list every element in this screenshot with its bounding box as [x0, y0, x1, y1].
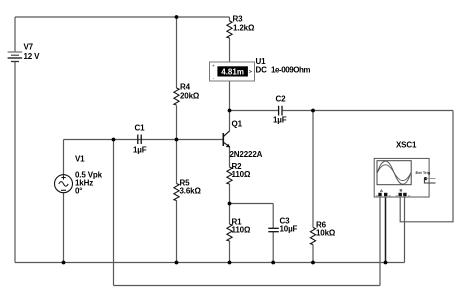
battery V7 [8, 52, 23, 62]
svg-text:Ext Trig: Ext Trig [416, 170, 431, 175]
capacitor C2 1uF [279, 106, 282, 116]
wire V1 bottom lead [63, 193, 65, 263]
svg-text:1µF: 1µF [273, 116, 287, 125]
transistor Q1 2N2222A [223, 131, 229, 147]
svg-text:1e-009Ohm: 1e-009Ohm [271, 66, 310, 75]
svg-text:0°: 0° [75, 187, 82, 196]
wire right drop to scope B+ [400, 111, 453, 222]
wire C3 top lead [272, 204, 274, 229]
ammeter U1 [210, 62, 255, 82]
node R4 top rail [175, 15, 179, 19]
wire ground bus [15, 262, 405, 264]
svg-text:12 V: 12 V [24, 52, 41, 61]
resistor R6 10k [310, 228, 315, 245]
node emitter R2 R1 [228, 202, 232, 206]
svg-text:V7: V7 [24, 43, 34, 52]
resistor R4 20k [174, 88, 179, 105]
node R1 ground [228, 261, 232, 265]
wire C2 to right corner [283, 110, 453, 112]
wire R6 top lead [312, 111, 314, 228]
wire V1 top lead [63, 140, 65, 175]
wire scope A- to ground [385, 197, 387, 262]
svg-text:DC: DC [256, 66, 268, 75]
svg-text:Q1: Q1 [232, 120, 243, 129]
wire top rail V7 to R3 [15, 16, 230, 18]
svg-text:110Ω: 110Ω [232, 226, 251, 235]
svg-text:XSC1: XSC1 [396, 141, 417, 150]
wire R4 top lead [176, 17, 178, 88]
wire R1 bottom lead [229, 241, 231, 263]
wire R5 bottom lead [176, 201, 178, 263]
wire base net V1 to Q1 [64, 139, 223, 141]
resistor R1 110 [227, 224, 232, 241]
node A- ground [384, 261, 388, 265]
svg-text:10µF: 10µF [280, 225, 298, 234]
svg-text:R4: R4 [180, 83, 191, 92]
wire R6 bottom lead [312, 245, 314, 263]
svg-text:2N2222A: 2N2222A [230, 150, 263, 159]
node R6 ground [311, 261, 315, 265]
svg-text:R3: R3 [233, 15, 244, 24]
wire collector lead [229, 111, 231, 131]
wire V7 top lead [14, 17, 16, 52]
AC source V1 [55, 175, 73, 193]
node C3 ground [271, 261, 275, 265]
resistor R5 3.6k [174, 184, 179, 201]
capacitor C1 1uF [138, 135, 141, 145]
node collector output [228, 109, 232, 113]
wire bottom input to scope A+ [114, 285, 381, 287]
wire C3 bottom lead [272, 232, 274, 263]
svg-text:A: A [380, 188, 383, 193]
capacitor C3 10uF [268, 228, 279, 231]
wire V7 bottom lead [14, 62, 16, 263]
svg-text:110Ω: 110Ω [232, 170, 251, 179]
svg-text:V1: V1 [75, 155, 85, 164]
oscilloscope XSC1 [374, 158, 435, 197]
resistor R2 110 [227, 167, 232, 184]
svg-text:10kΩ: 10kΩ [316, 229, 336, 238]
node R5 ground [175, 261, 179, 265]
node V1 ground [62, 261, 66, 265]
svg-text:1µF: 1µF [133, 146, 147, 155]
resistor R3 1.2k [227, 21, 232, 38]
node input tap [112, 138, 116, 142]
svg-text:+: + [212, 64, 215, 70]
wire collector node to C2 [230, 110, 278, 112]
svg-text:C1: C1 [135, 124, 146, 133]
svg-text:1.2kΩ: 1.2kΩ [233, 24, 255, 33]
wire R2 bottom to R1 top [229, 184, 231, 224]
wire R3 bottom to U1 [229, 38, 231, 62]
svg-text:4.81m: 4.81m [221, 68, 244, 77]
wire scope B- riser [404, 197, 406, 263]
node output R6 [311, 109, 315, 113]
wire emitter node to C3 [230, 203, 274, 205]
svg-text:C2: C2 [276, 95, 287, 104]
wire R3 top lead [229, 17, 231, 21]
wire R4 bottom to R5 top [176, 106, 178, 184]
wire scope A+ riser [379, 197, 381, 286]
wire input tap riser [113, 140, 115, 286]
svg-text:3.6kΩ: 3.6kΩ [180, 187, 202, 196]
svg-text:20kΩ: 20kΩ [180, 92, 200, 101]
svg-text:B: B [400, 188, 403, 193]
node base divider [175, 138, 179, 142]
wire U1 to collector node [229, 81, 231, 111]
wire emitter lead to R2 [229, 147, 231, 167]
